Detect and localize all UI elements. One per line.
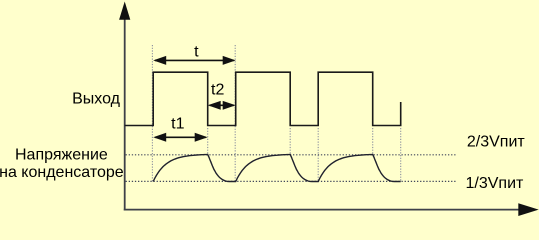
dimension arrow t (one period) <box>153 56 236 65</box>
dotted vertical guide at falling edge 1 (x=207.7) <box>207 128 209 154</box>
capacitor voltage curve <box>153 155 401 182</box>
vertical axis line <box>124 17 126 211</box>
svg-text:Выход: Выход <box>72 90 121 107</box>
svg-text:t1: t1 <box>171 115 184 132</box>
dotted vertical guide at rising edge 3 (x=318.2) <box>317 128 319 182</box>
dotted threshold line 1/3 Vpit (y=181.4) <box>126 180 457 182</box>
dotted vertical guide at falling edge 3 (x=372.7) <box>372 128 374 154</box>
svg-text:t2: t2 <box>211 81 224 98</box>
vertical axis arrowhead <box>119 2 130 20</box>
dimension arrow t1 (high time) <box>153 133 208 142</box>
dotted vertical guide at rising edge 1 (x=152.4) <box>151 45 153 182</box>
dotted vertical guide at final rising edge (x=400.7) <box>400 128 402 182</box>
dotted threshold line 2/3 Vpit (y=154.8) <box>126 154 457 156</box>
svg-text:t: t <box>194 43 199 60</box>
svg-text:1/3Vпит: 1/3Vпит <box>466 175 525 192</box>
svg-text:Напряжение: Напряжение <box>15 146 108 163</box>
dimension arrow t2 (low time) <box>208 101 236 110</box>
output square wave <box>125 72 401 125</box>
dotted vertical guide at falling edge 2 (x=290.2) <box>289 128 291 154</box>
svg-text:на конденсаторе: на конденсаторе <box>0 164 124 181</box>
svg-text:2/3Vпит: 2/3Vпит <box>467 133 526 150</box>
dotted vertical guide at rising edge 2 (x=235.7) <box>234 45 236 182</box>
horizontal axis line <box>124 209 521 211</box>
horizontal axis arrowhead <box>518 203 538 216</box>
